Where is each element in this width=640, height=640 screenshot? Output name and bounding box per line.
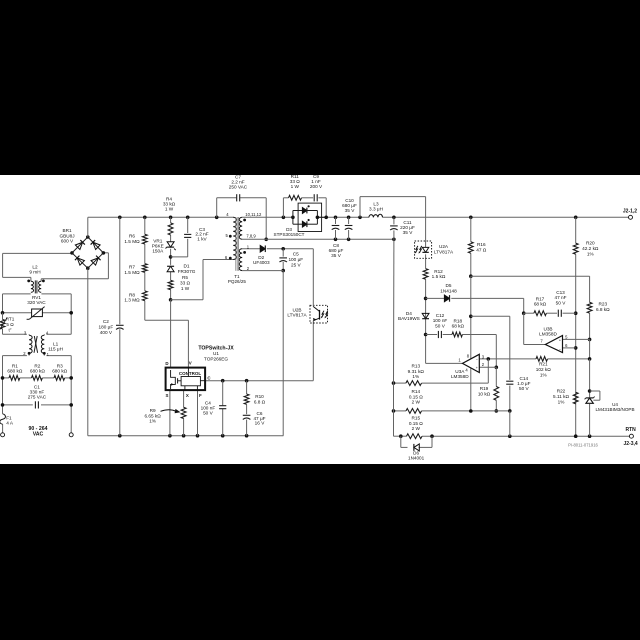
node C5 top [281, 247, 285, 251]
wire U3A gnd pin4 [470, 368, 472, 411]
wire U2B emitter down [312, 321, 314, 381]
node U4 ref node [588, 389, 592, 393]
node pin2 node [495, 366, 499, 370]
label PI number [568, 443, 598, 448]
node C10 top [347, 216, 351, 220]
svg-text:C2: C2 [103, 319, 109, 324]
node C8 top [334, 216, 338, 220]
capacitor C3 [184, 227, 209, 242]
wire ac input left rail top [3, 253, 31, 277]
resistor R2 [30, 363, 45, 380]
node bridge top corner [86, 235, 90, 239]
node RV1 right [69, 311, 73, 315]
resistor R6 [124, 234, 147, 244]
node R10 top [245, 379, 249, 383]
wire pin2 to C5 [242, 270, 283, 272]
node C7 return [264, 238, 268, 242]
capacitor C10 [342, 198, 357, 230]
node C8 return [334, 238, 338, 242]
capacitor C6 [243, 411, 266, 426]
wire C10 vert [348, 217, 350, 239]
svg-text:U2B: U2B [292, 307, 301, 312]
wire filter box right side [70, 294, 72, 334]
bridge diode upper-left [75, 240, 85, 250]
svg-text:X: X [186, 393, 189, 398]
resistor R4 [163, 197, 176, 235]
resistor R10 [244, 394, 265, 404]
svg-text:400 V: 400 V [100, 330, 113, 335]
svg-text:600 V: 600 V [61, 239, 74, 244]
wire pin2 to U3A [479, 366, 496, 368]
label 90-264 VAC [28, 426, 47, 437]
svg-text:BAV19WS: BAV19WS [398, 316, 420, 321]
wire F pin [197, 390, 199, 436]
wire C pin line [205, 380, 313, 382]
svg-text:PQ26/25: PQ26/25 [228, 279, 247, 284]
wire R16 vert [470, 217, 472, 276]
svg-text:115 μH: 115 μH [48, 347, 63, 352]
resistor R20 [573, 240, 599, 256]
resistor R8 [124, 291, 147, 303]
optocoupler U2A [415, 241, 454, 258]
node C10 return [347, 238, 351, 242]
diode D6 [408, 444, 425, 461]
inductor L3 [369, 202, 383, 218]
transformer T1 primary winding [233, 217, 236, 259]
wire sec return rail 7-8-9 [242, 238, 394, 240]
optocoupler U2B [287, 305, 327, 323]
svg-text:200 V: 200 V [310, 184, 323, 189]
wire pin1 to D2 to C5 [242, 248, 313, 250]
wire bridge bottom to ground rail [87, 268, 89, 436]
node R11 branch [282, 216, 286, 220]
wire RTN rail [401, 435, 632, 437]
svg-text:35 V: 35 V [331, 253, 342, 258]
wire lower box left side [2, 356, 4, 414]
svg-text:R21: R21 [539, 361, 548, 366]
svg-text:LTV817A: LTV817A [434, 249, 454, 254]
terminal J2-1,2 [623, 208, 637, 219]
wire C1 line [3, 404, 72, 406]
svg-text:10 kΩ: 10 kΩ [478, 391, 491, 396]
svg-text:1 W: 1 W [165, 207, 174, 212]
svg-text:2 W: 2 W [412, 400, 421, 405]
svg-text:680 kΩ: 680 kΩ [52, 368, 67, 373]
svg-text:PI-8011-071916: PI-8011-071916 [568, 443, 598, 448]
node C5 bottom [281, 269, 285, 273]
TVS diode VR1 [152, 239, 176, 254]
capacitor C14 [506, 376, 530, 391]
svg-text:1%: 1% [412, 374, 419, 379]
resistor R12 [423, 269, 446, 280]
wire D3 out rail [317, 216, 630, 218]
resistor R19 [478, 386, 499, 400]
svg-text:680 kΩ: 680 kΩ [30, 368, 45, 373]
wire C11 vert [393, 217, 395, 239]
svg-text:D: D [165, 361, 168, 366]
svg-text:FR307G: FR307G [178, 269, 196, 274]
node RV1 left [1, 311, 5, 315]
svg-text:D4: D4 [406, 311, 412, 316]
wire L1 top stubs [29, 333, 44, 336]
svg-text:320 VAC: 320 VAC [27, 300, 46, 305]
inductor L2 [27, 264, 44, 293]
svg-text:10,11,12: 10,11,12 [245, 212, 262, 217]
diode D4 [398, 311, 429, 321]
node S pin ground [168, 434, 172, 438]
wire R11 C9 snubber [283, 198, 326, 218]
svg-text:16 V: 16 V [255, 421, 266, 426]
node D5 branch [424, 297, 428, 301]
wire R23 vert [589, 313, 591, 339]
capacitor C2 [99, 319, 124, 335]
wire U4 ref loop [590, 391, 600, 400]
wire pin3 line [479, 358, 589, 360]
svg-text:D2: D2 [258, 255, 264, 260]
node D3 anode [291, 216, 295, 220]
node clamp mid [169, 255, 173, 259]
node L1 pin2 [28, 352, 31, 355]
svg-text:680 kΩ: 680 kΩ [7, 368, 22, 373]
resistor R23 [587, 302, 610, 314]
wire supply down to U3A [470, 276, 472, 358]
label T1 [228, 274, 247, 284]
capacitor C4 [201, 401, 227, 416]
wire U2B collector feed [312, 249, 314, 305]
wire L2 stubs [31, 277, 41, 281]
diode D1 [167, 263, 196, 274]
svg-text:6.65 kΩ: 6.65 kΩ [144, 413, 161, 418]
capacitor C13 [555, 290, 567, 317]
svg-text:R7: R7 [129, 265, 135, 270]
wire R13 line [394, 359, 489, 383]
capacitor C1 [28, 384, 47, 408]
svg-text:9 mH: 9 mH [29, 270, 40, 275]
node R19 bottom [495, 409, 499, 413]
svg-text:275 VAC: 275 VAC [28, 394, 47, 399]
fuse F1 [0, 414, 14, 426]
wire R21 right vert [589, 339, 591, 359]
svg-text:R23: R23 [598, 302, 607, 307]
wire R20 vert [575, 217, 577, 436]
thermistor RT1 [0, 316, 15, 332]
svg-text:+: + [559, 338, 561, 342]
node R20/C13 node [574, 311, 578, 315]
node bridge left corner [70, 251, 74, 255]
capacitor C11 [390, 220, 415, 235]
node R16 bottom [469, 274, 473, 278]
resistor R22 [553, 389, 578, 405]
svg-text:LM431BIM3/NOPB: LM431BIM3/NOPB [595, 407, 634, 412]
node C2 top [118, 216, 122, 220]
svg-text:2 W: 2 W [412, 426, 421, 431]
wire C14 jog [471, 316, 510, 411]
svg-text:LM358D: LM358D [451, 374, 469, 379]
node C4 bottom [221, 434, 225, 438]
resistor R18 [452, 318, 465, 337]
svg-text:D1: D1 [184, 263, 190, 268]
svg-text:J2-1,2: J2-1,2 [623, 208, 637, 214]
node U4 bottom [588, 434, 592, 438]
wire C5 vert [282, 249, 284, 271]
svg-text:RTN: RTN [625, 427, 636, 433]
transformer T1 core [236, 217, 239, 271]
node F pin ground [196, 434, 200, 438]
transformer T1 polarity dots [229, 219, 246, 260]
wire C3 branch [171, 217, 188, 257]
svg-text:4 A: 4 A [6, 421, 14, 426]
node R14 left [392, 409, 396, 413]
node R string left [1, 376, 5, 380]
terminal AC right [69, 433, 73, 437]
label U1 TOPSwitch [198, 345, 234, 361]
svg-text:1%: 1% [540, 373, 547, 378]
svg-text:250 VAC: 250 VAC [229, 184, 248, 189]
svg-text:100 μF: 100 μF [288, 257, 303, 262]
svg-text:1.5 MΩ: 1.5 MΩ [124, 270, 140, 275]
svg-text:1.5 MΩ: 1.5 MΩ [124, 239, 140, 244]
resistor R21 [536, 357, 551, 378]
resistor R14 [406, 389, 423, 413]
bridge rectifier BR1 frame [72, 237, 103, 268]
svg-text:D3: D3 [286, 227, 292, 232]
node bridge right corner [102, 251, 106, 255]
node C7 top [215, 216, 219, 220]
svg-text:68 kΩ: 68 kΩ [452, 324, 465, 329]
node bridge bottom corner [86, 266, 90, 270]
wire D5 line [426, 298, 524, 313]
diode D5 [440, 283, 457, 302]
wire lower box top edge [3, 355, 72, 357]
inductor L3 masking [369, 215, 383, 220]
svg-text:1%: 1% [558, 400, 565, 405]
svg-text:5 Ω: 5 Ω [6, 322, 14, 327]
svg-text:42.2 kΩ: 42.2 kΩ [582, 246, 599, 251]
svg-text:1 W: 1 W [291, 184, 300, 189]
wire R10 C6 vert [246, 381, 248, 436]
node D6 right [430, 434, 434, 438]
resistor R5 [168, 275, 190, 291]
wire fuse to terminal [2, 424, 4, 433]
node R6 top [143, 216, 147, 220]
wire opto feed loop [360, 197, 426, 241]
wire U3A out [426, 362, 463, 364]
svg-text:S: S [166, 393, 169, 398]
wire ac input right elbow [41, 253, 108, 279]
node drain node [169, 298, 173, 302]
svg-text:STPS30150CT: STPS30150CT [274, 232, 305, 237]
svg-text:1N4001: 1N4001 [408, 456, 425, 461]
svg-text:VAC: VAC [33, 432, 44, 438]
bridge diode lower-right [91, 256, 101, 266]
node R22 bottom [574, 434, 578, 438]
svg-text:CONTROL: CONTROL [179, 371, 201, 376]
node R4 top [169, 216, 173, 220]
svg-text:6.8 kΩ: 6.8 kΩ [596, 307, 610, 312]
node C1 right [69, 403, 73, 407]
wire S pin [169, 390, 171, 436]
wire U4 vert [589, 359, 591, 436]
svg-text:C5: C5 [293, 252, 299, 257]
svg-text:V: V [189, 361, 192, 366]
wire U3B out loop [524, 313, 546, 344]
wire RTN sense vert [394, 239, 401, 436]
svg-text:U1: U1 [213, 351, 219, 356]
svg-text:102 kΩ: 102 kΩ [536, 367, 551, 372]
svg-text:50 V: 50 V [203, 410, 214, 415]
svg-text:R19: R19 [480, 386, 489, 391]
label U1 pins [165, 361, 211, 399]
wire C12 R18 line [426, 335, 497, 368]
svg-text:t°: t° [8, 328, 11, 333]
resistor R13 [406, 364, 425, 386]
node L1 pin1 [43, 352, 46, 355]
wire op-amp supply rail [471, 276, 590, 302]
svg-text:5.11 kΩ: 5.11 kΩ [553, 394, 569, 399]
node C3 top [186, 216, 190, 220]
node R20 top [574, 216, 578, 220]
node C14 bottom [508, 409, 512, 413]
diode D2 [253, 245, 270, 265]
capacitor C5 [279, 252, 303, 268]
svg-text:1%: 1% [149, 419, 156, 424]
node C14 gnd rail [508, 434, 512, 438]
svg-text:68 kΩ: 68 kΩ [534, 302, 547, 307]
resistor R9 [144, 407, 186, 423]
node C14 supply tap [469, 315, 473, 319]
svg-text:25 V: 25 V [291, 263, 302, 268]
node divider pin6 node [574, 346, 578, 350]
node opto sense tap [358, 216, 362, 220]
resistor R11 [289, 174, 302, 200]
label BR1 [59, 228, 74, 243]
svg-text:7,8,9: 7,8,9 [246, 234, 256, 239]
wire R19 vert [495, 367, 497, 411]
wire filter box left side lower [2, 313, 4, 335]
wire opto out chain [425, 241, 427, 364]
svg-text:35 V: 35 V [403, 230, 414, 235]
wire drain to transformer pin6 [171, 260, 234, 300]
svg-text:TOP266EG: TOP266EG [204, 357, 228, 362]
svg-text:−: − [559, 347, 561, 351]
svg-text:+: + [476, 366, 478, 370]
op-amp U3A [451, 354, 485, 380]
wire pin6 line [563, 347, 576, 349]
wire bridge top to rail [88, 217, 234, 237]
varistor RV1 [27, 295, 47, 319]
transformer T1 secondary winding [239, 217, 242, 239]
resistor R1 [7, 363, 22, 380]
svg-text:1.5 kΩ: 1.5 kΩ [432, 274, 446, 279]
node C12 branch [424, 333, 428, 337]
svg-text:UF4003: UF4003 [253, 260, 270, 265]
diode D3 STPS30150CT [274, 203, 327, 237]
wire R1R2R3 line [3, 377, 72, 379]
node pin3 node [487, 357, 491, 361]
wire X pin [183, 390, 185, 436]
wire filter box top edge [3, 293, 72, 295]
svg-text:33 Ω: 33 Ω [180, 280, 191, 285]
resistor R7 [124, 264, 147, 275]
capacitor C9 [310, 174, 323, 201]
wire pin5 line [563, 338, 590, 340]
svg-text:1.3 MΩ: 1.3 MΩ [124, 298, 140, 303]
node C4 top [221, 379, 225, 383]
svg-text:50 V: 50 V [556, 300, 567, 305]
transformer T1 bias winding [239, 249, 242, 271]
node R17 node [522, 311, 526, 315]
wire L1 bottom stubs [29, 353, 44, 355]
node C1 left [1, 403, 5, 407]
node R13 left [392, 381, 396, 385]
svg-text:R5: R5 [182, 275, 188, 280]
terminal AC left [1, 433, 5, 437]
svg-text:J2-3,4: J2-3,4 [624, 441, 638, 447]
terminal J2-3,4 RTN [624, 427, 638, 447]
svg-text:R8: R8 [129, 292, 135, 297]
inductor L1 [23, 330, 63, 357]
bridge diode lower-left [75, 256, 85, 266]
resistor R15 [407, 416, 424, 439]
svg-text:180 μF: 180 μF [99, 325, 114, 330]
node C6 bottom [245, 434, 249, 438]
node C2 bottom [118, 434, 122, 438]
wire bridge left corner to left rail [3, 252, 72, 254]
svg-text:RT1: RT1 [6, 316, 15, 321]
node D3 out / C9 [324, 216, 328, 220]
op-amp U3B [539, 326, 568, 352]
wire sec 10-11-12 to D3 [242, 216, 293, 218]
resistor R17 [534, 296, 547, 315]
bridge diode upper-right [91, 240, 101, 250]
svg-text:3.3 μH: 3.3 μH [369, 207, 383, 212]
node R16 top [469, 216, 473, 220]
svg-text:35 V: 35 V [345, 208, 356, 213]
wire filter box bottom edge [3, 333, 72, 335]
capacitor C8 [329, 226, 344, 259]
wire C4 vert [222, 381, 224, 436]
wire C7 branch [217, 198, 267, 240]
wire RV1 line [3, 312, 72, 314]
transformer T1 pin labels [225, 212, 262, 271]
svg-text:U2A: U2A [439, 244, 449, 249]
wire lower box right side [70, 356, 72, 435]
svg-text:LM358D: LM358D [539, 331, 557, 336]
shunt reference U4 [585, 397, 635, 413]
wire bias return [282, 271, 284, 436]
wire R17 C13 line [524, 312, 576, 314]
node D6 left [399, 434, 403, 438]
svg-text:150A: 150A [152, 249, 164, 254]
node R21 right [588, 357, 592, 361]
svg-text:1%: 1% [587, 252, 594, 257]
wire filter box left side upper [2, 294, 4, 313]
svg-text:R6: R6 [129, 234, 135, 239]
svg-text:R20: R20 [586, 240, 595, 245]
svg-text:6.8 Ω: 6.8 Ω [254, 399, 266, 404]
svg-text:LTV817A: LTV817A [287, 313, 307, 318]
node X pin ground [182, 434, 186, 438]
node pin5 node [588, 338, 592, 342]
wire R14 line [394, 410, 510, 412]
wire primary ground rail [88, 435, 284, 437]
node C11 top [392, 216, 396, 220]
svg-text:50 V: 50 V [435, 323, 446, 328]
svg-text:1 kV: 1 kV [197, 237, 207, 242]
node R14 supply gnd [469, 409, 473, 413]
IC U1 TOPSwitch box [166, 368, 206, 391]
node R string right [69, 376, 73, 380]
